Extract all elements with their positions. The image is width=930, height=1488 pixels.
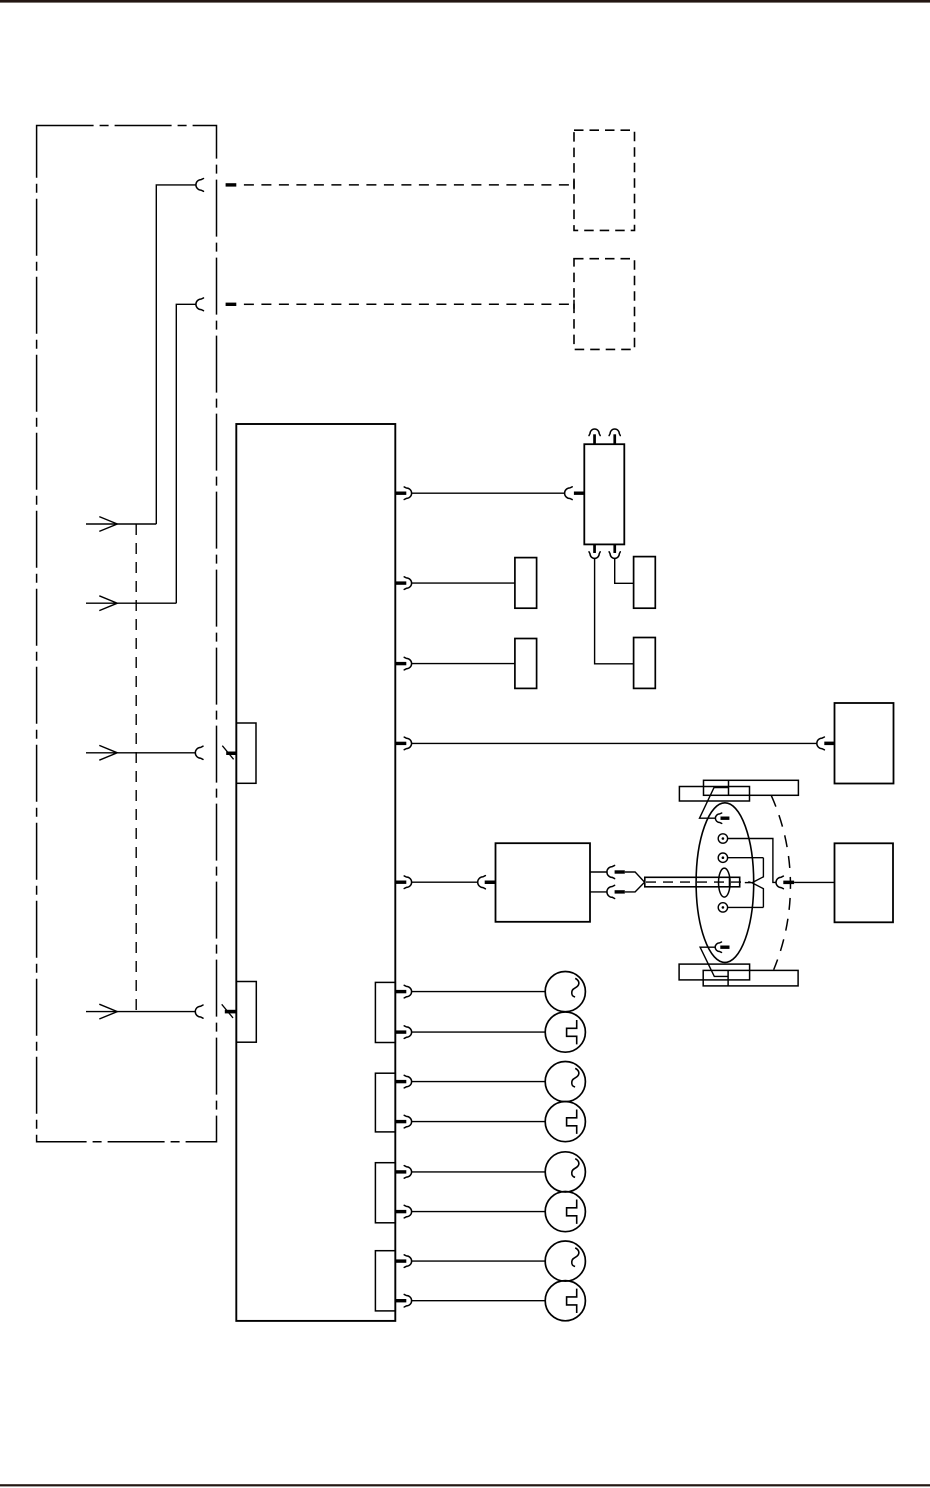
wire to relay bbox=[411, 492, 565, 494]
wire to right motor box bbox=[794, 881, 834, 883]
connector box B1 (dashed, top right) bbox=[574, 130, 635, 230]
arrow 1 feed wire bbox=[86, 523, 156, 525]
shaft tip link bbox=[745, 882, 752, 884]
ECU output pin 4 bbox=[396, 742, 406, 745]
motor top bar B bbox=[704, 780, 799, 795]
wire terminal 3 bbox=[728, 906, 764, 908]
top brush lead bbox=[700, 788, 729, 819]
ECU output pin 6 bbox=[396, 990, 406, 993]
wire to right unit box bbox=[411, 742, 817, 744]
ECU main box bbox=[236, 424, 395, 1321]
lamp 1 bbox=[545, 972, 585, 1012]
wire to lamp 6 bbox=[411, 1211, 545, 1213]
lamp 3 bbox=[545, 1062, 585, 1102]
control box output 1 bbox=[590, 871, 608, 873]
lamp 2 bbox=[545, 1012, 585, 1052]
ECU right tab 4 bbox=[375, 1251, 395, 1311]
ECU output pin 9 bbox=[396, 1120, 406, 1123]
commutator terminal 1 bbox=[718, 834, 727, 843]
relay left pin bbox=[574, 492, 584, 495]
resistor L2 bbox=[515, 639, 537, 689]
socket hook (arrow 3 wire) bbox=[195, 746, 203, 759]
slashed pin at ECU tab 1 bbox=[226, 752, 236, 756]
ECU left tab 1 bbox=[236, 723, 256, 783]
wire to lamp 5 bbox=[411, 1171, 545, 1173]
page footer rule bbox=[0, 1484, 930, 1486]
motor bottom bar A bbox=[679, 964, 750, 980]
harness group box (dash-dot) bbox=[37, 126, 217, 1142]
arrow 4 feed wire bbox=[86, 1011, 196, 1013]
ECU right tab 3 bbox=[375, 1163, 395, 1223]
lamp 4 bbox=[545, 1102, 585, 1142]
ECU output pin 2 bbox=[396, 581, 406, 584]
lamp 5 bbox=[545, 1152, 585, 1192]
shaft dashed centerline bbox=[646, 881, 751, 883]
bottom brush lead bbox=[700, 947, 728, 976]
dashed wire to box B1 bbox=[244, 184, 574, 186]
dashed branch wire inside harness box bbox=[135, 524, 137, 1012]
ECU output pin 12 bbox=[396, 1259, 406, 1262]
armature contact bracket bbox=[752, 858, 763, 908]
wire to lamp 3 bbox=[411, 1081, 545, 1083]
ECU left tab 2 bbox=[236, 982, 256, 1043]
wire to lamp 4 bbox=[411, 1121, 545, 1123]
arrow 2 feed wire bbox=[86, 602, 176, 604]
commutator terminal 2 bbox=[718, 853, 727, 862]
wiper control box bbox=[496, 843, 591, 922]
wire relay pin1 to resistor R4 bbox=[595, 558, 634, 664]
connector socket hook (wire 2) bbox=[196, 298, 204, 311]
wire from socket 1 down to arrow 1 bbox=[156, 185, 196, 524]
dashed wire to box B2 bbox=[244, 303, 574, 305]
wire to lamp 8 bbox=[411, 1300, 545, 1302]
slashed pin at ECU tab 2 bbox=[225, 1010, 236, 1014]
page header bar bbox=[0, 0, 930, 3]
relay top pin 2 bbox=[613, 434, 616, 444]
motor output connector bbox=[776, 876, 783, 889]
wire to wiper control box bbox=[411, 881, 478, 883]
arrow 3 feed wire bbox=[86, 752, 196, 754]
ECU output pin 5 bbox=[396, 881, 406, 884]
control box output 2 bbox=[590, 891, 608, 893]
connector at right unit box bbox=[817, 737, 825, 750]
motor bottom bar B bbox=[703, 970, 798, 986]
resistor R3 bbox=[634, 557, 656, 609]
relay bottom pin 2 bbox=[613, 544, 616, 553]
ECU right tab 2 bbox=[375, 1073, 395, 1132]
lamp 8 bbox=[545, 1281, 585, 1321]
ECU output pin 13 bbox=[396, 1299, 406, 1302]
wire to resistor L1 bbox=[411, 582, 515, 584]
connector socket hook (wire 1) bbox=[196, 179, 204, 192]
wire to lamp 1 bbox=[411, 991, 545, 993]
resistor L1 bbox=[515, 558, 537, 609]
wire terminal 2 bbox=[728, 857, 764, 859]
relay box bbox=[584, 444, 624, 544]
ECU output pin 3 bbox=[396, 662, 406, 665]
wire to resistor L2 bbox=[411, 663, 515, 665]
ECU output pin 1 bbox=[396, 492, 406, 495]
connector pin (wire 2) bbox=[226, 303, 237, 306]
wire to lamp 7 bbox=[411, 1260, 545, 1262]
connector at wiper control box input bbox=[478, 876, 486, 889]
relay top pin 1 bbox=[593, 434, 596, 444]
ECU output pin 8 bbox=[396, 1080, 406, 1083]
ECU output pin 11 bbox=[396, 1210, 406, 1213]
wire to lamp 2 bbox=[411, 1031, 545, 1033]
socket hook (arrow 4 wire) bbox=[195, 1005, 203, 1018]
motor body ellipse bbox=[696, 803, 754, 963]
ECU output pin 10 bbox=[396, 1170, 406, 1173]
right motor unit box bbox=[835, 843, 894, 922]
motor top bar A bbox=[679, 787, 749, 802]
wiper link shaft bbox=[645, 877, 740, 887]
motor hub ellipse bbox=[719, 868, 731, 897]
wire terminal 1 to output connector bbox=[728, 839, 777, 883]
commutator terminal 3 bbox=[718, 903, 727, 912]
wire relay pin2 to resistor R3 bbox=[615, 558, 634, 583]
lamp 6 bbox=[545, 1192, 585, 1232]
motor housing dashed arc bbox=[771, 796, 790, 970]
right unit box (upper) bbox=[835, 703, 894, 784]
lamp 7 bbox=[545, 1241, 585, 1281]
relay bottom pin 1 bbox=[593, 544, 596, 553]
ECU right tab 1 bbox=[375, 982, 395, 1042]
connector box B2 (dashed) bbox=[574, 259, 635, 350]
wire from socket 2 down to arrow 2 bbox=[176, 304, 196, 603]
connector pin (wire 1) bbox=[226, 183, 237, 186]
resistor R4 bbox=[634, 638, 656, 689]
ECU output pin 7 bbox=[396, 1030, 406, 1033]
